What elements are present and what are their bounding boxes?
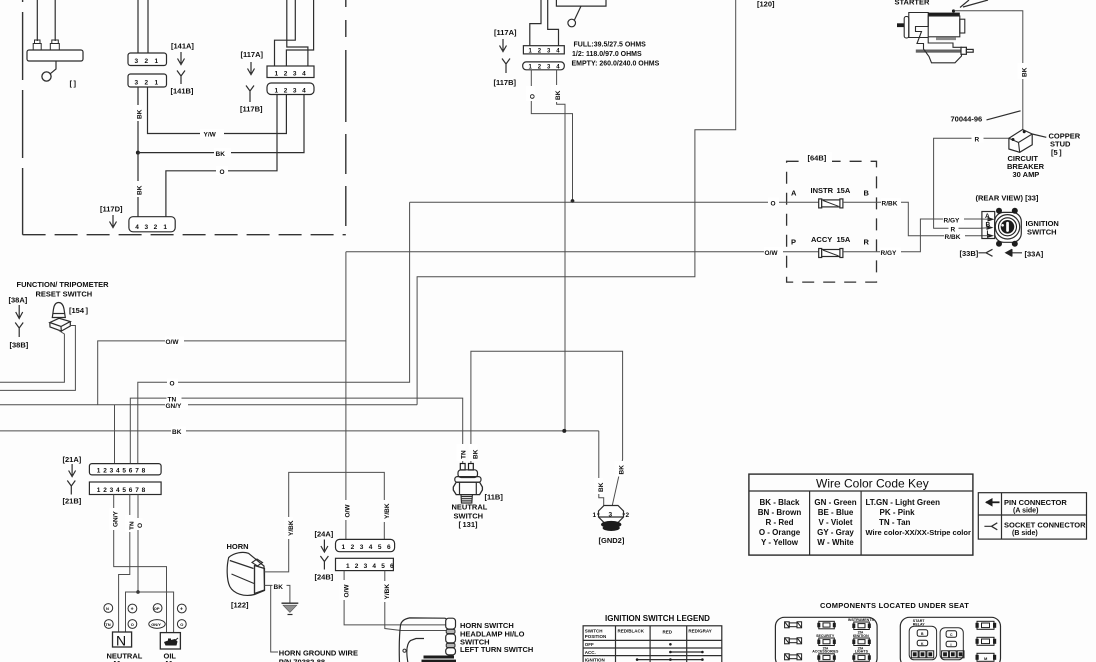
- svg-text:6: 6: [387, 544, 391, 551]
- wire O horizontal: [138, 202, 410, 463]
- svg-text:BK: BK: [1022, 67, 1029, 77]
- svg-text:O/W: O/W: [765, 250, 779, 257]
- svg-text:7: 7: [135, 487, 139, 494]
- wire O/W from [24B] to switch pod: [344, 571, 446, 625]
- socket symbol [117B] left: [246, 86, 254, 103]
- svg-text:8: 8: [142, 468, 146, 475]
- wire color code key column 3: [866, 498, 971, 537]
- wire BK from [141B] pin3: [137, 87, 139, 153]
- svg-text:[21A]: [21A]: [63, 455, 82, 464]
- svg-text:BK: BK: [216, 151, 226, 158]
- svg-text:R/BK: R/BK: [945, 234, 961, 241]
- wire R/BK from INSTR fuse: [843, 202, 981, 236]
- svg-text:RESET SWITCH: RESET SWITCH: [36, 290, 93, 299]
- svg-text:3: 3: [135, 58, 139, 65]
- svg-text:N: N: [106, 606, 109, 611]
- wire GN/Y riser to top edge: [417, 0, 736, 405]
- svg-text:O/W: O/W: [345, 504, 352, 518]
- svg-text:I: I: [987, 230, 989, 237]
- starter front bracket: [909, 13, 962, 63]
- svg-text:BE - Blue: BE - Blue: [818, 508, 854, 517]
- svg-text:HORN GROUND WIRE: HORN GROUND WIRE: [279, 649, 358, 658]
- svg-text:1: 1: [97, 487, 101, 494]
- svg-text:INSTR: INSTR: [811, 186, 834, 195]
- svg-text:Y/BK: Y/BK: [288, 520, 295, 536]
- connector [117D]: [129, 217, 175, 232]
- svg-text:O/W: O/W: [343, 584, 350, 598]
- svg-text:8: 8: [142, 487, 146, 494]
- svg-text:EMPTY: 260.0/240.0 OHMS: EMPTY: 260.0/240.0 OHMS: [572, 61, 660, 68]
- svg-text:6: 6: [390, 563, 394, 570]
- wire Y/W from [141B] pin2: [148, 87, 287, 134]
- svg-text:[ ]: [ ]: [70, 79, 77, 88]
- svg-text:6: 6: [129, 468, 133, 475]
- svg-text:INSTRUMENTS: INSTRUMENTS: [848, 618, 875, 622]
- pin connector arrow symbol: [986, 501, 1000, 503]
- wire BK starter to circuit breaker: [954, 11, 1022, 130]
- svg-text:COMPONENTS LOCATED UNDER SEAT: COMPONENTS LOCATED UNDER SEAT: [820, 601, 969, 610]
- wire TN horizontal: [130, 398, 462, 464]
- horn bracket: [255, 566, 265, 594]
- ACCY fuse 15A: [819, 249, 822, 258]
- svg-text:15A: 15A: [837, 186, 851, 195]
- instrument console dashed border bottom: [23, 234, 346, 236]
- fuse SECURITY: [812, 621, 839, 662]
- fuse INSTRUMENTS/IGNITION/LIGHTS: [848, 618, 875, 662]
- svg-text:4: 4: [116, 468, 120, 475]
- wire GN/Y to oil lamp: [114, 495, 167, 633]
- instrument console dashed border left: [22, 0, 24, 235]
- svg-text:LT.GN - Light Green: LT.GN - Light Green: [866, 498, 941, 507]
- svg-text:I: I: [951, 643, 952, 647]
- svg-text:O: O: [530, 94, 537, 99]
- wire O/W down branch to [24A]: [345, 341, 347, 540]
- svg-text:7: 7: [135, 468, 139, 475]
- svg-text:IGNITION SWITCH LEGEND: IGNITION SWITCH LEGEND: [605, 614, 710, 623]
- fuel sender float terminal: [568, 19, 576, 27]
- svg-text:TN - Tan: TN - Tan: [879, 518, 911, 527]
- wire O/W to ACCY fuse: [346, 251, 819, 253]
- ignition switch body flange: [995, 212, 1022, 242]
- wire BK down to [117D]: [137, 153, 139, 217]
- horn body: [227, 552, 264, 595]
- svg-text:3: 3: [360, 544, 364, 551]
- fuel sender lead: [574, 6, 581, 20]
- neutral switch cap: [458, 470, 478, 478]
- reset switch base: [50, 318, 71, 331]
- svg-text:1: 1: [97, 468, 101, 475]
- relay socket B: [940, 628, 963, 660]
- wire BK horn to ground: [265, 585, 290, 602]
- svg-text:FULL:39.5/27.5 OHMS: FULL:39.5/27.5 OHMS: [574, 42, 647, 49]
- svg-text:3: 3: [293, 87, 297, 94]
- svg-text:[GND2]: [GND2]: [599, 536, 625, 545]
- svg-text:V - Violet: V - Violet: [818, 518, 852, 527]
- starter leader lines: [960, 0, 969, 8]
- ring terminal: [42, 72, 51, 81]
- svg-text:TN: TN: [461, 450, 468, 459]
- svg-text:BK: BK: [598, 482, 605, 492]
- svg-text:4: 4: [135, 224, 139, 231]
- ground bolt GND2: [599, 506, 624, 523]
- svg-text:2: 2: [103, 468, 107, 475]
- svg-text:1: 1: [275, 87, 279, 94]
- svg-text:BK: BK: [274, 584, 284, 591]
- svg-text:Y/BK: Y/BK: [384, 584, 391, 600]
- svg-text:[33B]: [33B]: [960, 249, 979, 258]
- svg-text:[122]: [122]: [231, 601, 249, 610]
- wire O/W main run: [98, 252, 346, 405]
- svg-text:70044-96: 70044-96: [951, 115, 983, 124]
- neutral switch terminals: [460, 464, 465, 471]
- oil indicator lamp: [160, 633, 180, 649]
- svg-text:[141B]: [141B]: [171, 87, 194, 96]
- svg-text:4: 4: [372, 563, 376, 570]
- wire Y/BK horn to [24A]: [265, 472, 385, 572]
- svg-text:O: O: [771, 200, 776, 207]
- svg-text:IGNITION: IGNITION: [585, 657, 605, 662]
- svg-text:R: R: [864, 238, 870, 247]
- svg-text:[154 ]: [154 ]: [69, 306, 89, 315]
- starter right end cap: [960, 19, 965, 33]
- neutral indicator lamp: [113, 632, 132, 647]
- svg-text:R/GY: R/GY: [881, 250, 898, 257]
- connector [117A-left]: [267, 66, 314, 78]
- socket symbol [117B] right: [502, 59, 510, 74]
- starter shaft: [897, 23, 904, 27]
- svg-text:[5 ]: [5 ]: [1051, 148, 1062, 157]
- reset switch wire 1: [0, 330, 64, 382]
- svg-text:Wire color-XX/XX-Stripe color: Wire color-XX/XX-Stripe color: [866, 528, 971, 537]
- svg-text:5: 5: [378, 544, 382, 551]
- wire R/GY from ACCY fuse: [843, 219, 981, 252]
- svg-text:OP: OP: [154, 606, 160, 611]
- wire color code key column 1: [758, 498, 802, 547]
- connector [21A] 8-pin: [89, 464, 161, 475]
- svg-text:2: 2: [626, 512, 630, 519]
- INSTR fuse 15A: [819, 199, 822, 208]
- svg-text:RED: RED: [663, 630, 673, 635]
- neutral switch collar: [455, 477, 481, 483]
- svg-text:4: 4: [302, 87, 306, 94]
- svg-text:1/2: 118.0/97.0 OHMS: 1/2: 118.0/97.0 OHMS: [572, 51, 642, 58]
- svg-text:[38B]: [38B]: [10, 341, 29, 350]
- svg-text:(A side): (A side): [1013, 508, 1038, 515]
- svg-text:3: 3: [293, 70, 297, 77]
- wire O to lamps: [137, 495, 139, 593]
- svg-text:IGNITION: IGNITION: [853, 634, 869, 638]
- svg-text:5: 5: [122, 487, 126, 494]
- circuit breaker 30 amp: [1009, 130, 1032, 153]
- svg-text:O: O: [137, 523, 144, 528]
- fuel sender housing: [556, 0, 606, 6]
- svg-text:4: 4: [369, 544, 373, 551]
- wire GN/Y corner down to [21A]: [114, 405, 116, 464]
- socket symbol [24B]: [320, 556, 328, 570]
- pin arrow [117D]: [110, 215, 117, 228]
- starter solenoid top band: [928, 13, 960, 16]
- wire BK horizontal to [117B] pin4: [138, 95, 304, 153]
- wire color code key column 2: [814, 498, 856, 547]
- svg-text:P/N 70382-88: P/N 70382-88: [279, 658, 325, 662]
- ignition switch legend table: [583, 626, 722, 662]
- svg-text:O - Orange: O - Orange: [759, 528, 801, 537]
- svg-text:Y/BK: Y/BK: [384, 503, 391, 519]
- svg-text:[117D]: [117D]: [100, 205, 123, 214]
- neutral switch threads: [461, 495, 473, 503]
- oil can icon: [164, 639, 178, 646]
- svg-text:BK: BK: [137, 109, 144, 119]
- svg-text:A: A: [791, 189, 797, 198]
- ignition switch terminal block: [982, 212, 995, 239]
- svg-text:ACC.: ACC.: [585, 650, 596, 655]
- svg-text:O: O: [131, 622, 134, 627]
- svg-text:GY - Gray: GY - Gray: [817, 528, 854, 537]
- ignition switch barrel: [995, 215, 1019, 239]
- svg-text:2: 2: [103, 487, 107, 494]
- svg-text:BN - Brown: BN - Brown: [758, 508, 802, 517]
- wire O from [117B-right] pin1: [531, 70, 572, 200]
- pin arrow [21A]: [69, 464, 76, 477]
- svg-text:[117A]: [117A]: [241, 50, 264, 59]
- connector [141A]: [128, 53, 167, 66]
- svg-text:R/GY: R/GY: [944, 217, 961, 224]
- svg-text:GN/Y: GN/Y: [113, 510, 120, 527]
- svg-text:[21B]: [21B]: [63, 497, 82, 506]
- svg-text:2: 2: [145, 79, 149, 86]
- svg-text:LIGHTS: LIGHTS: [855, 650, 869, 654]
- svg-text:R: R: [951, 227, 956, 234]
- svg-text:[117A]: [117A]: [494, 28, 517, 37]
- svg-text:STARTER: STARTER: [895, 0, 930, 7]
- svg-text:2: 2: [154, 224, 158, 231]
- svg-text:BK: BK: [555, 90, 562, 100]
- pin arrow [24A]: [321, 540, 328, 553]
- svg-text:R - Red: R - Red: [766, 518, 794, 527]
- svg-text:PIN CONNECTOR: PIN CONNECTOR: [1004, 498, 1067, 507]
- svg-text:4: 4: [116, 487, 120, 494]
- arrowhead O joins fuse line: [571, 199, 575, 203]
- connector [117A-right]: [523, 46, 564, 54]
- starter end plate: [904, 17, 909, 39]
- reset switch [154] button: [52, 303, 65, 318]
- svg-text:2: 2: [145, 58, 149, 65]
- starter gray band: [936, 37, 956, 40]
- socket symbol [21B]: [67, 481, 75, 495]
- svg-text:2: 2: [284, 70, 288, 77]
- svg-text:Y/W: Y/W: [204, 132, 217, 139]
- svg-text:[64B]: [64B]: [808, 154, 827, 163]
- svg-text:3: 3: [145, 224, 149, 231]
- instrument console dashed border right: [345, 0, 347, 235]
- svg-text:5: 5: [122, 468, 126, 475]
- wire O from [117B] pin1 to [117D] pin1: [166, 95, 277, 217]
- svg-text:6: 6: [129, 487, 133, 494]
- svg-text:30 AMP: 30 AMP: [1013, 170, 1040, 179]
- socket symbol [38B]: [15, 323, 23, 338]
- svg-text:GN/Y: GN/Y: [151, 622, 161, 627]
- svg-text:+: +: [131, 607, 134, 613]
- switch pod connector stack: [446, 618, 456, 629]
- svg-text:BK - Black: BK - Black: [759, 498, 800, 507]
- svg-text:W - White: W - White: [817, 538, 854, 547]
- wire O to INSTR fuse: [410, 201, 819, 203]
- svg-text:BK: BK: [473, 449, 480, 459]
- chassis ground symbol: [282, 602, 299, 604]
- svg-text:[ 131]: [ 131]: [459, 520, 479, 529]
- svg-text:B: B: [864, 189, 870, 198]
- svg-text:POSITION: POSITION: [585, 634, 607, 639]
- svg-text:1: 1: [342, 544, 346, 551]
- wire Y/BK from [24B] to switch pod: [385, 571, 446, 631]
- neutral switch hex body: [453, 482, 482, 494]
- svg-text:[11B]: [11B]: [485, 493, 504, 502]
- connector [141B]: [128, 74, 167, 87]
- indicator lamp module: wire to top edge 1: [36, 0, 38, 41]
- svg-text:SECURITY: SECURITY: [816, 634, 835, 638]
- svg-text:BK: BK: [172, 429, 182, 436]
- wire O branch: [126, 592, 174, 633]
- terminal lead wire: [50, 61, 56, 74]
- svg-text:FUNCTION/ TRIPOMETER: FUNCTION/ TRIPOMETER: [17, 280, 110, 289]
- connector [24B] 6-pin: [336, 558, 394, 570]
- svg-text:1: 1: [346, 563, 350, 570]
- svg-text:SWITCH: SWITCH: [1027, 228, 1057, 237]
- spare fuse column: [785, 622, 802, 660]
- connector [141A] wires to top edge: [137, 0, 139, 53]
- svg-text:GN - Green: GN - Green: [814, 498, 856, 507]
- svg-text:[24A]: [24A]: [315, 530, 334, 539]
- pin arrow [38A]: [16, 305, 23, 319]
- svg-text:OFF: OFF: [585, 642, 594, 647]
- pin arrow [141A]: [178, 52, 185, 65]
- svg-text:2: 2: [355, 563, 359, 570]
- socket connector symbol: [984, 523, 997, 530]
- svg-text:(B side): (B side): [1012, 530, 1038, 537]
- indicator terminal circles row 1: [104, 604, 113, 613]
- svg-text:3: 3: [110, 487, 114, 494]
- wire BK down to ground GND2: [599, 431, 604, 506]
- wire R breaker to B terminal: [934, 138, 1009, 228]
- svg-text:O: O: [180, 622, 183, 627]
- svg-text:RED/GRAY: RED/GRAY: [688, 629, 711, 634]
- pin arrow [117A] right: [500, 39, 507, 52]
- svg-text:R/BK: R/BK: [882, 201, 898, 208]
- svg-text:1: 1: [163, 224, 167, 231]
- svg-text:SWITCH: SWITCH: [585, 628, 603, 633]
- starter terminal stud dot: [952, 9, 955, 12]
- svg-text:[117B]: [117B]: [240, 105, 263, 114]
- arrowhead R/GY to A terminal: [988, 217, 995, 222]
- wire BK main horizontal: [0, 430, 599, 432]
- label [64B]: [806, 152, 832, 162]
- breaker column right: [976, 621, 997, 661]
- svg-text:SOCKET CONNECTOR: SOCKET CONNECTOR: [1004, 521, 1086, 530]
- svg-text:(REAR VIEW) [33]: (REAR VIEW) [33]: [976, 194, 1039, 203]
- svg-text:NEUTRAL: NEUTRAL: [107, 652, 143, 661]
- svg-text:4: 4: [302, 70, 306, 77]
- arrowhead R/BK to I terminal: [987, 233, 994, 238]
- arrowhead R to B terminal: [987, 225, 994, 230]
- svg-text:[38A]: [38A]: [9, 296, 28, 305]
- relay panel housing: [900, 617, 1000, 662]
- connector [117A-left] wires from top: [275, 0, 296, 66]
- fuse block [64B] dashed box: [787, 161, 877, 282]
- terminal bolt 1: [35, 40, 41, 44]
- svg-text:[33A]: [33A]: [1025, 250, 1044, 259]
- svg-text:[24B]: [24B]: [315, 573, 334, 582]
- svg-text:3: 3: [609, 512, 613, 519]
- fuse block housing: [775, 617, 877, 662]
- svg-text:R: R: [975, 136, 980, 143]
- svg-text:O/W: O/W: [166, 339, 180, 346]
- svg-text:TN: TN: [105, 622, 110, 627]
- label COPPER STUD [5]: [1032, 134, 1046, 137]
- svg-text:1: 1: [275, 70, 279, 77]
- pin/socket connector legend box: [978, 493, 1086, 539]
- svg-text:GN/Y: GN/Y: [166, 403, 183, 410]
- wire BK from neutral switch to ground: [471, 351, 623, 505]
- svg-text:3: 3: [135, 79, 139, 86]
- svg-text:STUD: STUD: [1050, 139, 1071, 148]
- svg-text:PK - Pink: PK - Pink: [880, 508, 916, 517]
- svg-text:LEFT TURN SWITCH: LEFT TURN SWITCH: [460, 645, 533, 654]
- svg-text:[141A]: [141A]: [171, 42, 194, 51]
- svg-text:1: 1: [593, 512, 597, 519]
- switch pod screw: [403, 649, 406, 652]
- svg-text:O: O: [170, 381, 175, 388]
- reset switch wire 2: [0, 326, 75, 391]
- wire color code key box: [749, 474, 973, 555]
- svg-text:NEUTRAL: NEUTRAL: [452, 503, 488, 512]
- svg-text:2: 2: [351, 544, 355, 551]
- wire GN/Y horizontal: [0, 404, 417, 406]
- svg-text:P: P: [791, 238, 796, 247]
- svg-text:O: O: [220, 169, 225, 176]
- ignition switch mounting nuts: [996, 208, 1002, 214]
- svg-text:TN: TN: [168, 397, 177, 404]
- svg-text:[117B]: [117B]: [494, 78, 517, 87]
- svg-text:5: 5: [381, 563, 385, 570]
- svg-text:RED/BLACK: RED/BLACK: [618, 629, 645, 634]
- pin arrow [117A] left: [248, 62, 255, 75]
- socket symbol [141B]: [177, 71, 185, 85]
- connector [24A] 6-pin: [336, 539, 395, 551]
- relay socket A: [909, 626, 936, 660]
- svg-text:[120]: [120]: [757, 0, 775, 9]
- wire BK from [117B-right] pin4: [557, 70, 565, 432]
- horn ground wire lead: [271, 585, 278, 652]
- svg-text:3: 3: [110, 468, 114, 475]
- junction dot BK: [562, 429, 566, 433]
- starter motor body: [928, 16, 960, 37]
- indicator lamp module: wire to top edge 2: [54, 0, 56, 41]
- svg-text:3: 3: [364, 563, 368, 570]
- svg-text:+: +: [180, 607, 183, 613]
- svg-text:Y - Yellow: Y - Yellow: [761, 538, 799, 547]
- wire TN to neutral lamp: [119, 495, 130, 633]
- svg-text:1: 1: [155, 79, 159, 86]
- svg-text:N: N: [116, 633, 126, 649]
- junction dot O: [136, 590, 140, 594]
- svg-text:BK: BK: [618, 465, 625, 475]
- indicator terminal circles row 2: [104, 620, 113, 629]
- junction dot BK: [136, 151, 140, 155]
- svg-text:15A: 15A: [837, 235, 851, 244]
- svg-text:B: B: [986, 221, 991, 228]
- terminal bolt 2: [52, 40, 59, 44]
- svg-text:A: A: [985, 213, 990, 220]
